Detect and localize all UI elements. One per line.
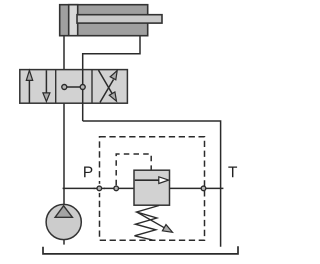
valve middle square B pass-through wire xyxy=(82,70,84,104)
tank bottom bracket xyxy=(43,246,238,254)
wire P-T line redrawn over halo xyxy=(94,187,106,189)
wire pump suction stub xyxy=(63,240,65,245)
pilot dashed line xyxy=(116,154,151,185)
label T xyxy=(228,167,237,178)
node: pilot tap dot xyxy=(114,186,119,191)
halo to break dashes at P-line crossing xyxy=(95,184,104,193)
wire B: cylinder rod port to valve, through valve, down to T line xyxy=(83,36,140,122)
valve divider right xyxy=(91,70,93,104)
relief valve RV1 body xyxy=(134,170,170,205)
valve middle square right port circle xyxy=(80,85,85,90)
wire A: cylinder cap port to valve xyxy=(63,36,65,70)
valve right square crossed arrow down-right xyxy=(99,70,117,101)
dashed enclosure box xyxy=(100,137,205,240)
node: dashed-box left crossing dot xyxy=(97,186,102,191)
cylinder piston xyxy=(69,5,78,36)
directional valve V1 body xyxy=(20,70,128,104)
valve right square crossed arrow up-right xyxy=(100,71,117,103)
pump M1 circle xyxy=(46,204,81,239)
node: dashed-box right crossing dot xyxy=(201,186,206,191)
relief valve adjustment arrow xyxy=(137,212,173,232)
cylinder C1 body xyxy=(60,5,148,36)
cylinder rod xyxy=(77,15,162,23)
relief valve spring xyxy=(135,206,160,241)
wire P-T horizontal main line xyxy=(63,187,224,189)
valve divider left xyxy=(55,70,57,104)
pump triangle xyxy=(55,206,72,218)
relief valve internal arrow xyxy=(135,177,169,184)
valve middle square connecting link xyxy=(64,86,82,88)
valve left square down arrow xyxy=(43,70,50,101)
wire T: valve to right return drop xyxy=(83,121,221,247)
valve middle square left port circle xyxy=(62,85,67,90)
wire P: valve to pump xyxy=(63,103,65,205)
label P xyxy=(84,167,92,178)
valve left square up arrow xyxy=(26,70,32,102)
